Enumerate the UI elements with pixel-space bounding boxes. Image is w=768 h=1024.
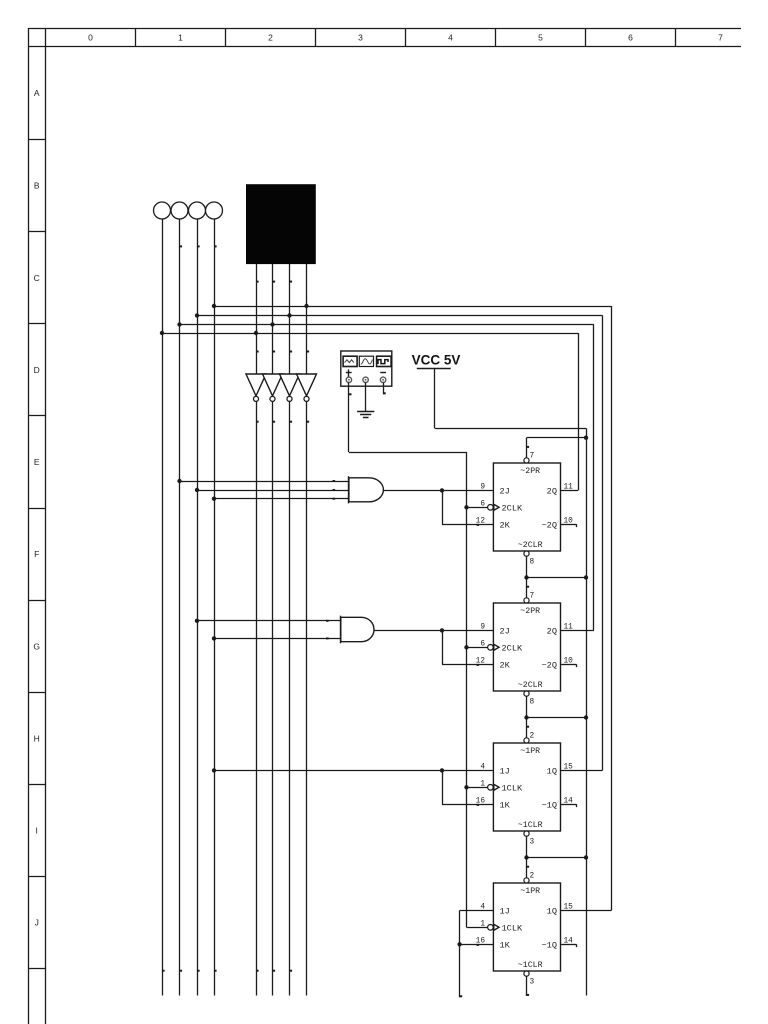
inverter U2D output wire	[307, 402, 310, 996]
inverter U2B output wire	[273, 402, 276, 996]
svg-text:1Q: 1Q	[547, 906, 557, 916]
feedback wire from flip-flop Q up to bus row 1	[561, 306, 612, 911]
stub wire from negative terminal	[383, 383, 386, 395]
svg-text:8: 8	[530, 699, 535, 707]
flip-flop U3 body	[493, 743, 560, 831]
feedback wire from flip-flop Q up to bus row 2	[561, 316, 603, 771]
connector circle J2	[171, 202, 188, 219]
flip-flop U2 J input pin 9	[480, 623, 485, 631]
flip-flop U3 clear bubble pin 3	[524, 831, 535, 858]
preset/clear tie wire 1	[527, 436, 589, 440]
svg-text:E: E	[34, 457, 40, 467]
flip-flop U4 K input pin 16	[476, 937, 486, 945]
flip-flop U4 preset bubble pin 2	[524, 858, 535, 884]
AND gate A2	[341, 616, 375, 644]
svg-text:0: 0	[88, 33, 93, 43]
function generator XFG1	[341, 351, 392, 386]
wire connector J4 column to U3 J/K	[212, 768, 494, 806]
pin wire 2 of black component through inverter column	[273, 264, 276, 374]
preset/clear tie wire 3	[524, 715, 588, 719]
svg-text:2: 2	[530, 873, 535, 881]
connector circle J3	[189, 202, 206, 219]
svg-text:~2Q: ~2Q	[542, 521, 557, 531]
svg-text:F: F	[34, 549, 39, 559]
svg-text:2K: 2K	[500, 520, 511, 530]
svg-text:15: 15	[564, 903, 574, 911]
svg-text:2Q: 2Q	[547, 626, 557, 636]
svg-text:~2PR: ~2PR	[520, 467, 540, 476]
svg-text:2CLK: 2CLK	[502, 503, 523, 513]
flip-flop U2 clear bubble pin 8	[524, 691, 535, 718]
preset/clear tie wire 2	[524, 575, 588, 579]
wire from connector J1 down	[162, 219, 165, 996]
flip-flop U2 ~Q output pin 10 stub	[561, 657, 577, 667]
clock wire from function generator to flip-flops	[349, 383, 467, 928]
svg-text:~1PR: ~1PR	[520, 747, 540, 756]
svg-text:1: 1	[480, 920, 485, 928]
svg-text:~1CLR: ~1CLR	[518, 961, 543, 970]
flip-flop U2 body	[493, 603, 560, 691]
preset/clear tie wire 4	[524, 855, 588, 859]
flip-flop U3 preset bubble pin 2	[524, 718, 535, 744]
flip-flop U1 clear bubble pin 8	[524, 551, 535, 578]
AND gate A2 input wires	[195, 619, 341, 641]
AND gate A1 input wires	[177, 479, 349, 501]
pin wire 4 of black component through inverter column	[307, 264, 310, 374]
flip-flop U2 Q output pin 11	[564, 623, 574, 631]
svg-text:1CLK: 1CLK	[502, 783, 523, 793]
svg-text:11: 11	[564, 483, 574, 491]
svg-text:H: H	[34, 733, 40, 743]
svg-text:~2Q: ~2Q	[542, 661, 557, 671]
bus wire row 4	[160, 331, 578, 335]
svg-text:2J: 2J	[500, 626, 510, 636]
flip-flop U3 clock input pin 1	[464, 780, 493, 790]
connector circle J1	[154, 202, 171, 219]
wire VCC to preset/clear bus	[435, 369, 587, 996]
flip-flop U1 body	[493, 463, 560, 551]
flip-flop U3 ~Q output pin 14 stub	[561, 797, 577, 807]
svg-text:VCC 5V: VCC 5V	[412, 352, 461, 367]
black component U1 (filled body)	[246, 184, 316, 264]
svg-text:1: 1	[480, 780, 485, 788]
svg-text:B: B	[34, 181, 40, 191]
flip-flop U4 clock input pin 1	[467, 920, 494, 930]
flip-flop U1 Q output pin 11	[564, 483, 574, 491]
svg-text:~2CLR: ~2CLR	[518, 541, 543, 550]
svg-text:~2PR: ~2PR	[520, 607, 540, 616]
svg-text:1CLK: 1CLK	[502, 923, 523, 933]
svg-text:7: 7	[530, 453, 535, 461]
ground symbol	[357, 383, 374, 418]
svg-text:1Q: 1Q	[547, 766, 557, 776]
inverter U2C	[280, 374, 300, 401]
flip-flop U1 J input pin 9	[480, 483, 485, 491]
pin wire 1 of black component through inverter column	[256, 264, 259, 374]
svg-text:6: 6	[480, 640, 485, 648]
flip-flop U1 clock input pin 6	[464, 500, 493, 510]
svg-text:2J: 2J	[500, 486, 510, 496]
svg-text:A: A	[34, 88, 40, 98]
inverter U2A	[246, 374, 266, 401]
inverter U2B	[263, 374, 283, 401]
pin wire 3 of black component through inverter column	[290, 264, 293, 374]
svg-text:~2CLR: ~2CLR	[518, 681, 543, 690]
flip-flop U3 J input pin 4	[480, 763, 485, 771]
svg-text:~1PR: ~1PR	[520, 887, 540, 896]
svg-text:~1Q: ~1Q	[542, 801, 557, 811]
svg-text:C: C	[34, 273, 40, 283]
svg-text:3: 3	[358, 33, 363, 43]
svg-text:14: 14	[564, 797, 574, 805]
wire AND gate A2 output to U2 J/K	[374, 628, 493, 666]
svg-text:10: 10	[564, 517, 574, 525]
svg-text:14: 14	[564, 937, 574, 945]
wire from connector J2 down	[180, 219, 183, 996]
svg-text:~1Q: ~1Q	[542, 941, 557, 951]
svg-text:I: I	[36, 826, 38, 836]
flip-flop U2 preset bubble pin 7	[524, 578, 535, 604]
svg-text:7: 7	[718, 33, 723, 43]
flip-flop U3 K input pin 16	[476, 797, 486, 805]
bus wire row 3	[177, 322, 594, 326]
flip-flop U1 preset bubble pin 7	[524, 438, 535, 463]
AND gate A1	[349, 476, 384, 503]
feedback wire from flip-flop Q up to bus row 4	[561, 333, 579, 491]
flip-flop U4 clear bubble pin 3	[524, 971, 535, 996]
svg-text:D: D	[34, 365, 40, 375]
wire from connector J4 down	[214, 219, 217, 996]
svg-text:5: 5	[538, 33, 543, 43]
svg-text:4: 4	[448, 33, 453, 43]
power VCC 5V	[412, 352, 461, 368]
bus wire row 1	[212, 304, 612, 308]
svg-text:2CLK: 2CLK	[502, 643, 523, 653]
svg-text:3: 3	[530, 979, 535, 987]
wire from connector J3 down	[197, 219, 200, 996]
bus wire row 2	[195, 313, 603, 317]
inverter U2D	[297, 374, 317, 401]
inverter U2A output wire	[256, 402, 259, 996]
wire AND gate A1 output to U1 J/K	[383, 488, 493, 526]
svg-text:1K: 1K	[500, 800, 511, 810]
svg-text:3: 3	[530, 839, 535, 847]
flip-flop U1 ~Q output pin 10 stub	[561, 517, 577, 527]
flip-flop U4 body	[493, 883, 560, 971]
svg-text:2: 2	[530, 733, 535, 741]
wire U4 J/K tie going down	[457, 910, 493, 997]
svg-text:1: 1	[178, 33, 183, 43]
flip-flop U2 K input pin 12	[476, 657, 486, 665]
flip-flop U1 K input pin 12	[476, 517, 486, 525]
flip-flop U3 Q output pin 15	[564, 763, 574, 771]
svg-text:2: 2	[268, 33, 273, 43]
svg-text:6: 6	[628, 33, 633, 43]
svg-text:2Q: 2Q	[547, 486, 557, 496]
inverter U2C output wire	[290, 402, 293, 996]
svg-text:1K: 1K	[500, 940, 511, 950]
feedback wire from flip-flop Q up to bus row 3	[561, 325, 594, 631]
svg-text:6: 6	[480, 500, 485, 508]
flip-flop U4 Q output pin 15	[564, 903, 574, 911]
svg-text:J: J	[35, 918, 39, 928]
flip-flop U4 ~Q output pin 14 stub	[561, 937, 577, 947]
svg-text:10: 10	[564, 657, 574, 665]
connector circle J4	[206, 202, 223, 219]
svg-text:8: 8	[530, 559, 535, 567]
svg-text:7: 7	[530, 593, 535, 601]
svg-text:G: G	[33, 641, 40, 651]
svg-text:1J: 1J	[500, 766, 510, 776]
flip-flop U4 J input pin 4	[480, 903, 485, 911]
svg-text:~1CLR: ~1CLR	[518, 821, 543, 830]
svg-text:11: 11	[564, 623, 574, 631]
svg-text:2K: 2K	[500, 660, 511, 670]
svg-text:1J: 1J	[500, 906, 510, 916]
flip-flop U2 clock input pin 6	[464, 640, 493, 650]
svg-text:15: 15	[564, 763, 574, 771]
